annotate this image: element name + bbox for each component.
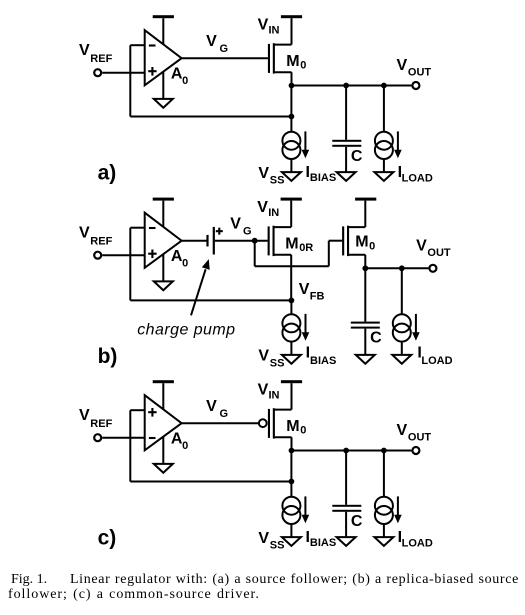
svg-text:V: V — [206, 33, 217, 50]
op-amp A0 inverting input marker (-) — [149, 227, 156, 229]
battery charge pump (b) — [206, 227, 222, 255]
op-amp A0 body — [145, 30, 182, 85]
svg-text:a): a) — [98, 161, 117, 184]
ground symbol under op-amp A0 (b) — [154, 281, 173, 290]
junction M0 source node (c) — [289, 448, 295, 454]
current source ILOAD (b) — [393, 314, 411, 332]
wire feedback stub to op-amp input (a) — [130, 44, 144, 46]
svg-text:0: 0 — [300, 424, 306, 436]
supply VIN bar (a) — [281, 15, 302, 18]
svg-text:OUT: OUT — [408, 66, 432, 78]
svg-text:V: V — [258, 16, 269, 33]
supply VIN bar for M0 (b) — [355, 198, 376, 201]
transistor M0R replica NMOS (b) — [268, 226, 292, 256]
junction ILOAD node (c) — [381, 448, 387, 454]
current source ILOAD (c) — [375, 497, 393, 515]
op-amp A0 inverting input marker (-) — [149, 44, 156, 46]
svg-text:M: M — [355, 233, 368, 250]
svg-text:0: 0 — [182, 440, 188, 452]
op-amp A0 non-inverting input marker (+) — [148, 70, 156, 72]
wire M0 drain to VIN (b) — [364, 201, 366, 228]
junction ILOAD node (a) — [381, 83, 387, 89]
caption line 2 — [8, 587, 260, 603]
svg-text:SS: SS — [270, 540, 285, 552]
svg-text:LOAD: LOAD — [402, 537, 433, 549]
svg-text:V: V — [79, 42, 90, 59]
svg-text:0: 0 — [369, 241, 375, 253]
op-amp A0 power supply bar (c) — [153, 380, 174, 383]
current source IBIAS (b) — [282, 314, 300, 332]
junction feedback node (c) — [289, 479, 295, 485]
node VG junction (b) — [252, 238, 258, 244]
terminal VREF (a) — [94, 69, 101, 76]
svg-text:IN: IN — [269, 389, 280, 401]
svg-text:V: V — [206, 398, 217, 415]
junction M0 source node (b) — [362, 265, 368, 271]
svg-text:BIAS: BIAS — [310, 172, 336, 184]
wire capacitor lower lead (b) — [364, 329, 366, 355]
ground symbol under capacitor (c) — [337, 537, 356, 546]
wire VREF to op-amp input (b) — [102, 254, 144, 256]
wire VREF to op-amp input (c) — [102, 437, 144, 439]
capacitor C (a) — [332, 140, 361, 142]
ground symbol under ILOAD (c) — [374, 537, 393, 546]
svg-text:G: G — [220, 408, 229, 420]
op-amp A0 non-inverting input marker (+) — [148, 253, 156, 255]
wire M0 drain to VIN (a) — [291, 18, 293, 44]
ground symbol under ILOAD (a) — [374, 172, 393, 181]
wire op-amp supply lead (b) — [162, 201, 164, 228]
svg-text:C: C — [351, 513, 363, 530]
svg-text:OUT: OUT — [408, 431, 432, 443]
terminal VREF (b) — [94, 252, 101, 259]
ground symbol under op-amp A0 (c) — [154, 464, 173, 473]
svg-text:SS: SS — [270, 357, 285, 369]
svg-text:0: 0 — [182, 258, 188, 270]
wire IBIAS branch lower lead (b) — [290, 342, 292, 355]
svg-text:V: V — [258, 165, 269, 182]
wire ILOAD branch lower lead (b) — [401, 342, 403, 355]
svg-text:LOAD: LOAD — [421, 355, 452, 367]
svg-text:A: A — [171, 248, 183, 265]
wire op-amp output VG (a) — [182, 57, 268, 59]
svg-text:M: M — [285, 235, 298, 252]
ground symbol VSS under IBIAS (a) — [282, 172, 301, 181]
junction capacitor node (c) — [343, 448, 349, 454]
wire output rail (a) — [292, 85, 412, 87]
ILOAD current arrow (c) — [397, 496, 399, 516]
svg-text:LOAD: LOAD — [402, 172, 433, 184]
supply VIN bar (b) — [281, 198, 302, 201]
ground symbol VSS under IBIAS (b) — [282, 355, 301, 364]
wire charge pump to VG node (b) — [215, 240, 268, 242]
svg-text:M: M — [286, 418, 299, 435]
ground symbol under capacitor (b) — [356, 355, 375, 364]
svg-text:c): c) — [98, 526, 117, 549]
transistor M0 (PMOS common-source) (c) — [259, 408, 292, 438]
wire capacitor lower lead (a) — [345, 147, 347, 172]
svg-text:G: G — [220, 43, 229, 55]
wire feedback bottom VFB (b) — [130, 299, 291, 301]
wire IBIAS branch upper lead (a) — [290, 86, 292, 132]
IBIAS current arrow (c) — [304, 496, 306, 516]
svg-text:A: A — [171, 431, 183, 448]
svg-text:V: V — [416, 237, 427, 254]
arrow pointing at charge pump (b) — [191, 259, 210, 315]
svg-text:IN: IN — [268, 207, 279, 219]
current source IBIAS (c) — [282, 497, 300, 515]
wire op-amp ground lead (a) — [162, 72, 164, 99]
ILOAD current arrow (a) — [397, 131, 399, 151]
svg-text:V: V — [257, 199, 268, 216]
svg-text:M: M — [286, 53, 299, 70]
wire feedback bottom (c) — [130, 481, 291, 483]
svg-text:A: A — [171, 66, 183, 83]
wire capacitor upper lead (b) — [364, 268, 366, 321]
svg-text:b): b) — [98, 345, 118, 368]
terminal VOUT (b) — [429, 265, 436, 272]
capacitor C (c) — [332, 505, 361, 507]
wire M0R drain to VIN (b) — [290, 201, 292, 228]
svg-text:0R: 0R — [299, 242, 313, 254]
svg-text:BIAS: BIAS — [310, 355, 336, 367]
svg-text:G: G — [243, 225, 252, 237]
wire ILOAD branch lower lead (c) — [383, 524, 385, 537]
wire IBIAS branch upper lead (c) — [290, 451, 292, 497]
IBIAS current arrow (a) — [304, 131, 306, 151]
wire output rail (c) — [292, 450, 412, 452]
ground symbol VSS under IBIAS (c) — [282, 537, 301, 546]
terminal VREF (c) — [94, 434, 101, 441]
junction M0 source node (a) — [289, 83, 295, 89]
wire M0 drain to VIN (c) — [291, 383, 293, 409]
wire M0 source to output rail (c) — [291, 437, 293, 450]
transistor M0 NMOS source follower (b) — [342, 226, 365, 256]
caption line 1 — [11, 572, 519, 588]
wire ILOAD branch upper lead (a) — [383, 86, 385, 132]
svg-text:OUT: OUT — [427, 247, 451, 259]
wire feedback vertical (a) — [129, 45, 131, 116]
wire op-amp output to charge pump (b) — [182, 240, 209, 242]
wire VG route horizontal (b) — [255, 265, 329, 267]
op-amp A0 non-inverting input marker (+) — [148, 411, 156, 413]
wire feedback vertical (b) — [129, 228, 131, 301]
junction ILOAD node (b) — [399, 265, 405, 271]
wire M0R source to VFB (b) — [290, 255, 292, 301]
ground symbol under op-amp A0 (a) — [154, 99, 173, 108]
svg-text:BIAS: BIAS — [310, 537, 336, 549]
svg-text:V: V — [79, 225, 90, 242]
wire output rail (b) — [365, 267, 428, 269]
op-amp A0 body — [145, 395, 182, 450]
svg-text:0: 0 — [300, 59, 306, 71]
wire ILOAD branch upper lead (c) — [383, 451, 385, 497]
wire feedback vertical (c) — [129, 410, 131, 481]
wire feedback bottom (a) — [130, 116, 291, 118]
wire capacitor lower lead (c) — [345, 512, 347, 537]
svg-text:V: V — [258, 381, 269, 398]
capacitor C (b) — [351, 322, 380, 324]
junction feedback node (a) — [289, 114, 295, 120]
terminal VOUT (a) — [412, 82, 419, 89]
wire IBIAS branch upper lead (b) — [290, 300, 292, 314]
svg-text:V: V — [258, 530, 269, 547]
ground symbol under capacitor (a) — [337, 172, 356, 181]
transistor M0 (NMOS source follower) (a) — [268, 43, 292, 73]
wire VG node down (b) — [254, 241, 256, 267]
op-amp A0 inverting input marker (-) — [149, 437, 156, 439]
svg-text:V: V — [230, 216, 241, 233]
svg-text:0: 0 — [182, 75, 188, 87]
op-amp A0 power supply bar (b) — [153, 198, 174, 201]
svg-text:charge pump: charge pump — [137, 321, 235, 338]
svg-text:REF: REF — [90, 418, 112, 430]
svg-text:IN: IN — [269, 24, 280, 36]
wire op-amp ground lead (c) — [162, 437, 164, 464]
wire capacitor upper lead (a) — [345, 86, 347, 140]
svg-text:C: C — [351, 148, 363, 165]
wire IBIAS branch lower lead (a) — [290, 159, 292, 172]
supply VIN bar (c) — [281, 380, 302, 383]
wire op-amp ground lead (b) — [162, 254, 164, 281]
wire into M0 gate (b) — [329, 240, 342, 242]
wire capacitor upper lead (c) — [345, 451, 347, 505]
junction VFB node (b) — [289, 298, 295, 304]
svg-text:V: V — [397, 57, 408, 74]
svg-text:REF: REF — [90, 236, 112, 248]
ground symbol under ILOAD (b) — [392, 355, 411, 364]
svg-text:V: V — [299, 281, 310, 298]
svg-text:REF: REF — [90, 53, 112, 65]
wire M0 source to output rail (a) — [291, 72, 293, 85]
wire ILOAD branch upper lead (b) — [401, 268, 403, 314]
terminal VOUT (c) — [412, 447, 419, 454]
wire IBIAS branch lower lead (c) — [290, 524, 292, 537]
op-amp A0 power supply bar (a) — [153, 15, 174, 18]
current source ILOAD (a) — [375, 132, 393, 150]
wire VG route up to M0 gate (b) — [328, 241, 330, 267]
ILOAD current arrow (b) — [415, 314, 417, 334]
wire feedback stub to op-amp input (b) — [130, 227, 144, 229]
svg-text:SS: SS — [270, 175, 285, 187]
svg-text:V: V — [397, 422, 408, 439]
wire op-amp output VG (c) — [182, 422, 260, 424]
wire VREF to op-amp input (a) — [102, 72, 144, 74]
wire M0 source to output rail (b) — [364, 255, 366, 269]
wire op-amp supply lead (a) — [162, 18, 164, 45]
svg-text:C: C — [370, 330, 382, 347]
wire feedback stub to op-amp input (c) — [130, 409, 144, 411]
svg-text:V: V — [79, 407, 90, 424]
wire ILOAD branch lower lead (a) — [383, 159, 385, 172]
op-amp A0 body — [145, 213, 182, 268]
current source IBIAS (a) — [282, 132, 300, 150]
wire op-amp supply lead (c) — [162, 383, 164, 410]
IBIAS current arrow (b) — [305, 314, 307, 334]
junction capacitor node (a) — [343, 83, 349, 89]
svg-text:V: V — [258, 348, 269, 365]
svg-text:FB: FB — [310, 291, 325, 303]
